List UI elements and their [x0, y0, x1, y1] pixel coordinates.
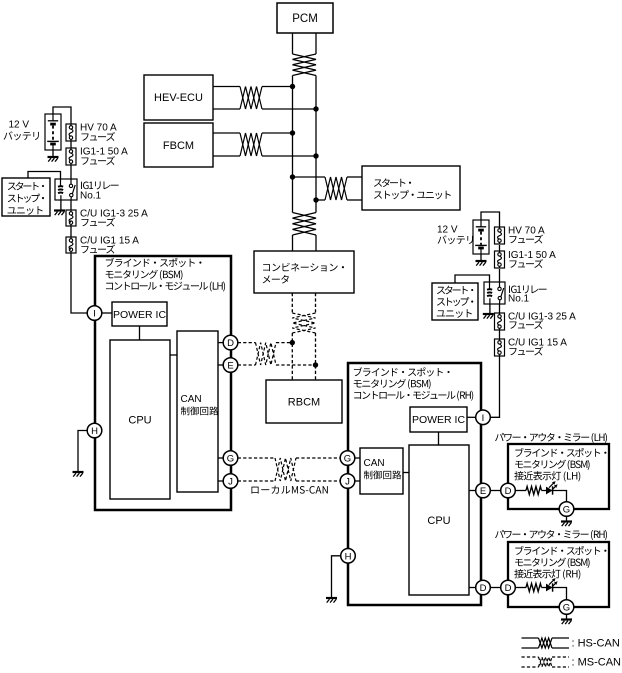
module BSM control module RH [348, 363, 481, 605]
label fuse C/U IG1 15A (right) [508, 338, 567, 356]
svg-text:CAN: CAN [364, 458, 385, 469]
fuse C/U IG1 15A (right) [495, 339, 505, 356]
junction HEV-ECU CAN-H [290, 84, 295, 89]
wire LED to node G (RH mirror) [553, 588, 567, 600]
ground node H (LH) [73, 472, 84, 477]
junction start-stop CAN-H [290, 174, 295, 179]
relay IG1 No.1 (right) [484, 282, 505, 304]
wire IG1 feed to node I (left) [71, 253, 87, 313]
junction MS-CAN node D [290, 340, 295, 345]
wire node J to CAN (RH) [355, 480, 360, 482]
resistor (LH mirror indicator) [526, 487, 542, 495]
junction HEV-ECU CAN-L [313, 106, 318, 111]
svg-text:I: I [93, 309, 96, 320]
wire MS-CAN meter left (dashed) [291, 293, 293, 380]
svg-text:J: J [228, 477, 233, 488]
module BSM control module LH [95, 256, 231, 510]
fuse IG1-1 50A (left) [66, 148, 76, 165]
node G (LH) [223, 451, 238, 466]
wire node D to mirror D (RH) [490, 587, 500, 589]
wire CAN to node J (LH) [218, 480, 223, 482]
IC POWER IC (RH) [410, 407, 467, 432]
LED approach indicator RH [546, 578, 558, 592]
svg-text:C/U IG1-3 25 A: C/U IG1-3 25 A [508, 312, 576, 323]
label 12V battery (left) [4, 120, 39, 141]
fuse C/U IG1-3 25A (right) [495, 313, 505, 330]
wire MS-CAN D (LH, dashed) [238, 342, 292, 344]
wire node E to mirror D (LH) [490, 490, 500, 492]
svg-text:HV 70 A: HV 70 A [80, 123, 117, 134]
module start-stop unit (left) [2, 178, 50, 216]
fuse HV 70A (right) [495, 227, 505, 244]
label fuse C/U IG1-3 25A (left) [80, 209, 148, 227]
svg-text:: HS-CAN: : HS-CAN [572, 638, 620, 650]
module FBCM [144, 123, 213, 167]
wire CPU to node E (RH) [469, 490, 476, 492]
junction FBCM CAN-H [290, 130, 295, 135]
IC CPU (RH) [409, 445, 469, 595]
svg-text:FBCM: FBCM [163, 140, 194, 152]
wire POWER IC to node I (RH) [467, 416, 476, 418]
wire fuse3 to fuse4 (left) [70, 226, 72, 237]
wire CPU to node D (RH) [469, 587, 476, 589]
svg-text:D: D [505, 486, 512, 497]
wire POWER IC to CPU (LH) [139, 326, 141, 340]
wire fuse1 to fuse2 (right) [499, 245, 501, 251]
ground battery (left) [48, 150, 59, 162]
node D (RH mirror) [501, 580, 516, 595]
wire HS-CAN bus CAN-L (right line) [315, 33, 317, 251]
svg-text:G: G [563, 505, 570, 516]
LED approach indicator LH [546, 481, 558, 495]
node H (LH) [87, 423, 102, 438]
wire HEV-ECU CAN-L [213, 108, 316, 110]
wire LED to node G (LH mirror) [553, 491, 567, 502]
wire fuse2 to relay (right) [499, 269, 501, 282]
fuse C/U IG1-3 25A (left) [66, 210, 76, 226]
node I (LH) [87, 306, 102, 321]
fuse IG1-1 50A (right) [495, 251, 505, 268]
svg-text:H: H [91, 426, 98, 437]
wire CAN to node D (LH) [218, 342, 223, 344]
junction start-stop CAN-L [313, 197, 318, 202]
IC CAN controller (LH) [177, 331, 218, 492]
wire FBCM CAN-H [213, 132, 293, 134]
junction MS-CAN node E [313, 362, 318, 367]
label BSM control module RH [354, 367, 473, 401]
label legend MS-CAN [572, 657, 622, 669]
svg-text:D: D [227, 338, 234, 349]
module combination meter [254, 251, 354, 293]
svg-text:HV 70 A: HV 70 A [508, 226, 545, 237]
wire local MS-CAN J (dashed) [238, 480, 340, 482]
label BSM control module LH [106, 258, 225, 292]
module power outer mirror RH [508, 542, 609, 607]
fuse C/U IG1 15A (left) [66, 237, 76, 253]
wire fuse3 to fuse4 (right) [499, 330, 501, 339]
ground battery (right) [476, 254, 487, 266]
node G (RH mirror) [559, 600, 574, 615]
label legend HS-CAN [572, 638, 620, 650]
wire battery to fuse HV70A (right) [481, 212, 500, 227]
label 12V battery (right) [437, 225, 473, 245]
wire local MS-CAN G (dashed) [238, 457, 340, 459]
twisted pair start-stop branch [325, 177, 347, 200]
label BSM approach indicator RH [514, 546, 606, 580]
wire start-stop CAN-L [316, 199, 362, 201]
legend HS-CAN twisted pair [522, 638, 570, 648]
module start-stop unit (center) [362, 166, 460, 210]
node D (LH) [223, 335, 238, 350]
node G (LH mirror) [559, 502, 574, 517]
node D (LH mirror) [501, 483, 516, 498]
svg-text:POWER IC: POWER IC [412, 414, 466, 426]
module start-stop unit (right) [432, 283, 478, 320]
svg-text:G: G [227, 454, 234, 465]
battery 12V (left) [45, 114, 61, 150]
wire CAN to CPU (RH) [403, 472, 409, 474]
svg-text:CPU: CPU [128, 415, 151, 427]
svg-text:PCM: PCM [292, 13, 318, 25]
wire node H to ground (RH) [332, 556, 341, 597]
label local MS-CAN [251, 486, 327, 494]
node H (RH) [341, 549, 356, 564]
wire fuse1 to fuse2 (left) [70, 141, 72, 148]
relay IG1 No.1 (left) [55, 179, 77, 200]
svg-text:G: G [563, 603, 570, 614]
svg-text:D: D [505, 583, 512, 594]
svg-text:D: D [480, 583, 487, 594]
node G (RH) [340, 451, 355, 466]
svg-text:12 V: 12 V [9, 120, 30, 131]
wire fuse2 to relay (left) [70, 165, 72, 179]
module PCM [277, 3, 333, 33]
module RBCM [266, 380, 342, 423]
node D (RH) [476, 580, 491, 595]
label fuse HV 70A (left) [80, 123, 117, 141]
node J (LH) [223, 474, 238, 489]
wire POWER IC to CPU (RH) [438, 432, 440, 445]
node E (LH) [223, 358, 238, 373]
ground mirror RH [561, 614, 572, 624]
twisted pair FBCM branch [240, 133, 262, 156]
IC CAN controller (RH) [360, 448, 403, 494]
wire FBCM CAN-L [213, 155, 316, 157]
junction FBCM CAN-L [313, 153, 318, 158]
svg-text:IG1-1 50 A: IG1-1 50 A [508, 250, 556, 261]
wire node G to CAN (RH) [355, 457, 360, 459]
module HEV-ECU [144, 75, 213, 120]
fuse HV 70A (left) [66, 124, 76, 141]
wire CPU to CAN controller (LH) [170, 354, 177, 356]
wire start-stop to relay coil (right) [455, 275, 490, 283]
label relay IG1 No.1 (right) [508, 285, 547, 304]
label relay IG1 No.1 (left) [80, 181, 119, 201]
label fuse HV 70A (right) [508, 226, 545, 244]
ground mirror LH [561, 516, 572, 526]
wire resistor to LED (LH) [542, 490, 547, 492]
wire battery to fuse HV70A (left) [53, 107, 71, 124]
svg-text:IG1-1 50 A: IG1-1 50 A [80, 147, 128, 158]
legend MS-CAN twisted pair [522, 657, 570, 667]
svg-text:C/U IG1 15 A: C/U IG1 15 A [508, 338, 567, 349]
node E (RH) [476, 483, 491, 498]
label fuse IG1-1 50A (left) [80, 147, 128, 165]
svg-text:CPU: CPU [427, 515, 450, 527]
twisted pair HS-CAN bus upper [293, 54, 317, 76]
wire mirror D to resistor (LH) [515, 490, 526, 492]
wire start-stop to relay coil (left) [28, 172, 61, 180]
IC POWER IC (LH) [112, 302, 167, 326]
wire CAN to node G (LH) [218, 457, 223, 459]
svg-text:No.1: No.1 [508, 294, 530, 305]
twisted pair MS-CAN D/E (LH) [256, 343, 277, 365]
svg-text:H: H [345, 551, 352, 562]
wire HS-CAN bus CAN-H (left line) [292, 33, 294, 251]
label BSM approach indicator LH [514, 448, 606, 482]
svg-text:I: I [482, 413, 485, 424]
svg-text:CAN: CAN [181, 394, 202, 405]
ground relay coil (left) [54, 200, 65, 215]
IC CPU (LH) [110, 340, 170, 499]
wire CAN to node E (LH) [218, 364, 223, 366]
node I (RH) [476, 410, 491, 425]
label fuse C/U IG1-3 25A (right) [508, 312, 576, 329]
svg-text:HEV-ECU: HEV-ECU [154, 92, 203, 104]
svg-text:No.1: No.1 [80, 191, 102, 202]
twisted pair MS-CAN below meter [292, 313, 315, 333]
svg-text:E: E [480, 486, 486, 497]
svg-text:RBCM: RBCM [288, 397, 320, 409]
svg-text:J: J [345, 477, 350, 488]
wire MS-CAN meter right (dashed) [315, 293, 317, 380]
svg-text:12 V: 12 V [437, 225, 458, 236]
twisted pair HEV-ECU branch [240, 87, 262, 110]
svg-text:POWER IC: POWER IC [113, 309, 167, 321]
ground node H (RH) [326, 598, 337, 603]
wire node I to POWER IC (LH) [102, 312, 112, 314]
twisted pair local MS-CAN [275, 458, 296, 481]
twisted pair HS-CAN bus lower [293, 213, 317, 236]
wire node H to ground (LH) [78, 431, 87, 472]
wire mirror D to resistor (RH) [515, 587, 526, 589]
wire relay to fuse3 (left) [70, 200, 72, 210]
svg-text:C/U IG1 15 A: C/U IG1 15 A [80, 236, 139, 247]
ground relay coil (right) [483, 304, 494, 319]
wire IG1 feed to node I (right) [490, 356, 499, 417]
svg-text:: MS-CAN: : MS-CAN [572, 657, 622, 669]
label fuse IG1-1 50A (right) [508, 250, 556, 268]
wire MS-CAN E (LH, dashed) [238, 364, 316, 366]
label power outer mirror RH [495, 530, 607, 540]
wire relay to fuse3 (right) [499, 304, 501, 313]
svg-text:E: E [227, 361, 233, 372]
label fuse C/U IG1 15A (left) [80, 236, 139, 254]
module power outer mirror LH [508, 444, 609, 509]
battery 12V (right) [473, 220, 489, 254]
svg-text:G: G [344, 454, 351, 465]
node J (RH) [340, 474, 355, 489]
label power outer mirror LH [495, 433, 607, 443]
wire HEV-ECU CAN-H [213, 86, 293, 88]
resistor (RH mirror indicator) [526, 584, 542, 592]
wire resistor to LED (RH) [542, 587, 547, 589]
wire start-stop CAN-H [293, 176, 363, 178]
